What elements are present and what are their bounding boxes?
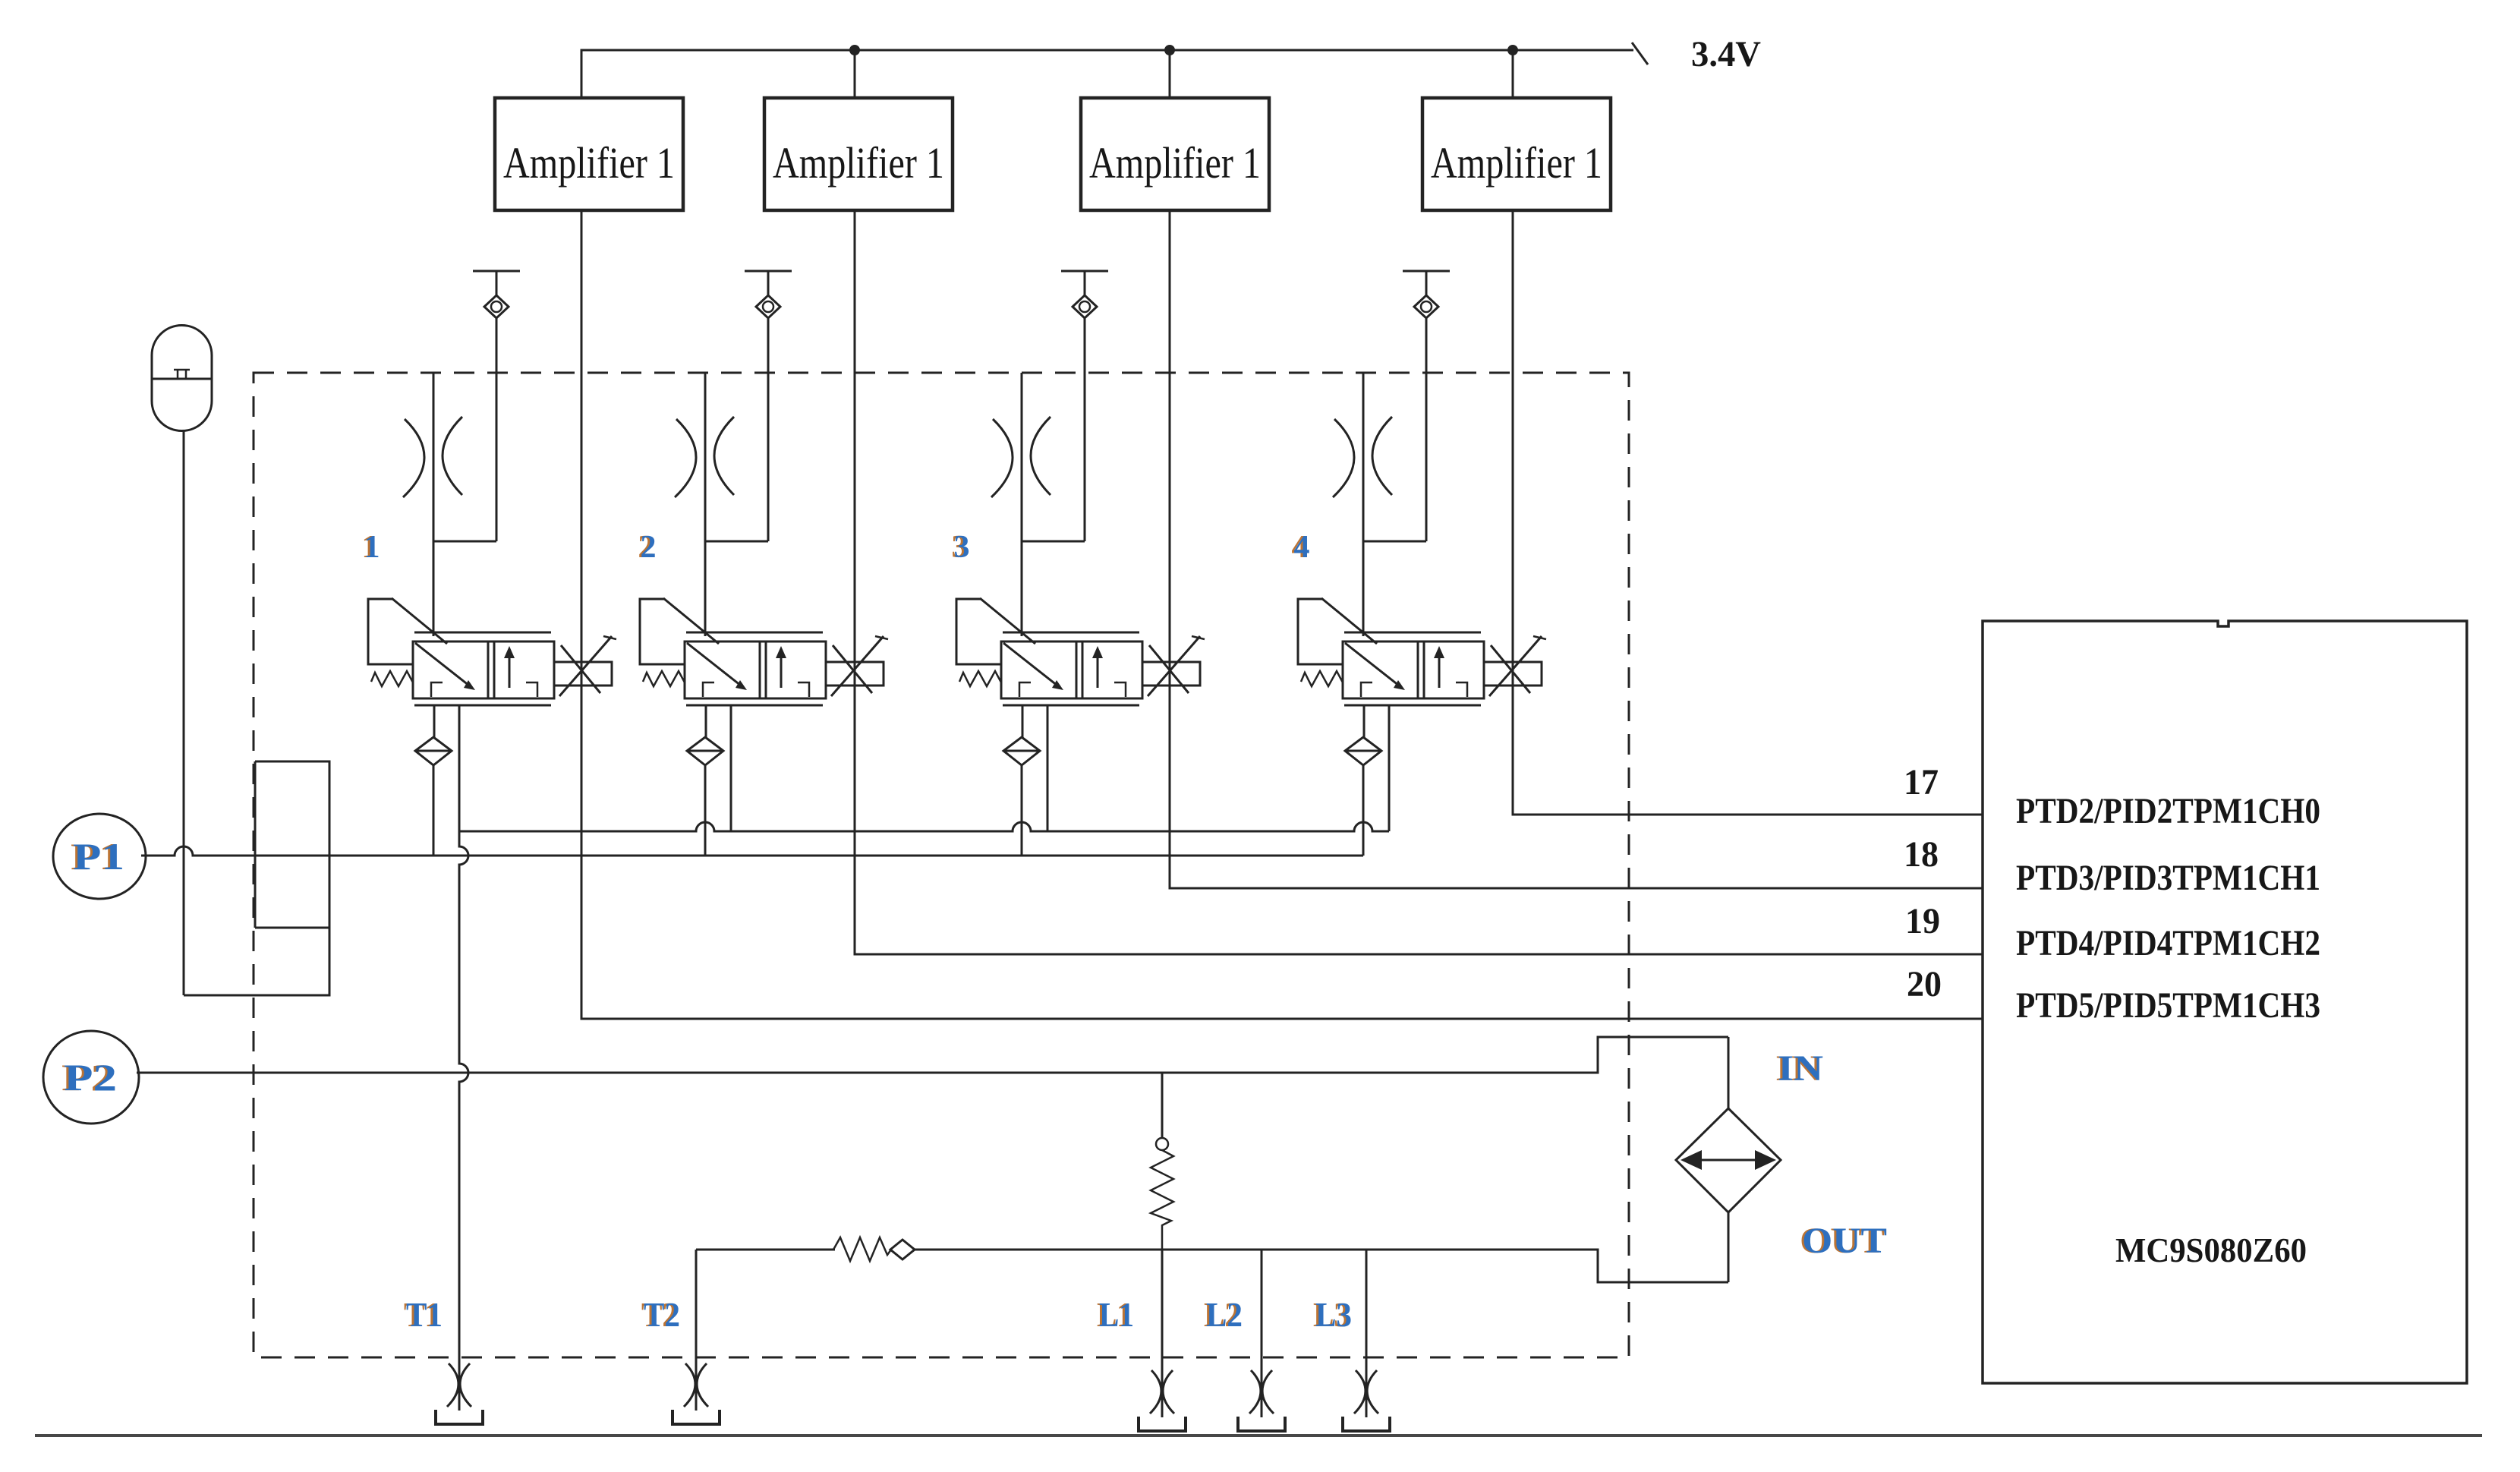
svg-text:L1: L1: [1099, 1295, 1134, 1334]
svg-text:18: 18: [1904, 834, 1939, 875]
svg-text:P1: P1: [73, 835, 124, 878]
svg-text:PTD5/PID5TPM1CH3: PTD5/PID5TPM1CH3: [2016, 985, 2320, 1026]
svg-text:PTD3/PID3TPM1CH1: PTD3/PID3TPM1CH1: [2016, 858, 2320, 898]
svg-text:IN: IN: [1778, 1048, 1823, 1089]
svg-text:P2: P2: [64, 1056, 117, 1098]
svg-text:3.4V: 3.4V: [1691, 34, 1761, 74]
svg-text:PTD4/PID4TPM1CH2: PTD4/PID4TPM1CH2: [2016, 923, 2320, 963]
svg-text:4: 4: [1294, 530, 1310, 565]
svg-text:19: 19: [1905, 901, 1940, 941]
svg-text:OUT: OUT: [1802, 1221, 1887, 1261]
svg-text:20: 20: [1907, 964, 1942, 1004]
svg-text:3: 3: [954, 530, 970, 565]
svg-text:T1: T1: [406, 1295, 443, 1334]
svg-text:PTD2/PID2TPM1CH0: PTD2/PID2TPM1CH0: [2016, 791, 2320, 831]
svg-text:2: 2: [641, 530, 657, 565]
svg-text:Amplifier 1: Amplifier 1: [503, 138, 675, 188]
svg-text:17: 17: [1904, 762, 1939, 802]
svg-text:Amplifier 1: Amplifier 1: [1431, 138, 1602, 188]
svg-text:Amplifier 1: Amplifier 1: [1089, 138, 1261, 188]
svg-text:Amplifier 1: Amplifier 1: [773, 138, 944, 188]
svg-text:L3: L3: [1315, 1295, 1352, 1334]
svg-text:T2: T2: [644, 1295, 680, 1334]
svg-text:MC9S080Z60: MC9S080Z60: [2115, 1231, 2307, 1269]
svg-text:L2: L2: [1206, 1295, 1243, 1334]
svg-text:1: 1: [364, 530, 380, 565]
